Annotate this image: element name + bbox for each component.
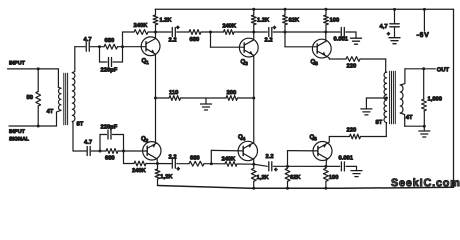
svg-text:-6V: -6V: [417, 32, 430, 39]
svg-text:4.7: 4.7: [84, 140, 92, 146]
svg-text:4T: 4T: [406, 115, 413, 121]
svg-text:220: 220: [347, 64, 357, 70]
svg-text:680: 680: [105, 38, 115, 44]
svg-text:100: 100: [329, 175, 339, 181]
svg-text:240K: 240K: [222, 23, 237, 29]
svg-text:4: 4: [243, 136, 246, 142]
svg-text:2.2: 2.2: [265, 38, 273, 44]
svg-text:110: 110: [169, 90, 178, 96]
svg-text:6: 6: [314, 136, 317, 142]
svg-text:INPUT: INPUT: [9, 60, 26, 66]
svg-text:240K: 240K: [134, 23, 149, 29]
svg-text:4T: 4T: [46, 109, 53, 115]
svg-text:5: 5: [315, 61, 318, 67]
svg-text:50: 50: [26, 95, 32, 101]
svg-text:200: 200: [227, 90, 237, 96]
svg-text:0.001: 0.001: [334, 37, 349, 43]
svg-text:8T: 8T: [76, 121, 83, 127]
svg-text:220: 220: [346, 128, 356, 134]
svg-text:1.2K: 1.2K: [257, 18, 270, 24]
svg-text:4,7: 4,7: [380, 24, 388, 30]
svg-text:4.7: 4.7: [84, 37, 92, 43]
svg-text:+: +: [273, 25, 276, 31]
svg-text:220pF: 220pF: [101, 67, 118, 73]
svg-text:1,2K: 1,2K: [256, 175, 269, 181]
svg-text:680: 680: [190, 37, 200, 43]
svg-text:SIGNAL: SIGNAL: [9, 136, 30, 142]
svg-text:1: 1: [146, 60, 149, 66]
svg-text:1,000: 1,000: [427, 97, 442, 103]
svg-text:+: +: [274, 167, 277, 173]
svg-text:240K: 240K: [132, 168, 147, 174]
svg-text:220pF: 220pF: [100, 124, 117, 130]
svg-text:2.2: 2.2: [168, 154, 176, 160]
svg-text:62K: 62K: [290, 175, 301, 181]
svg-text:1.2K: 1.2K: [159, 18, 172, 24]
svg-text:+: +: [177, 166, 180, 172]
svg-text:2: 2: [146, 138, 149, 144]
svg-text:62K: 62K: [289, 18, 300, 24]
svg-text:8T: 8T: [375, 120, 382, 126]
svg-text:240K: 240K: [221, 156, 236, 162]
svg-text:INPUT: INPUT: [9, 129, 26, 135]
svg-text:SeekIC.com: SeekIC.com: [391, 177, 460, 189]
svg-text:3: 3: [245, 61, 248, 67]
svg-text:+: +: [176, 25, 179, 31]
svg-text:+: +: [387, 32, 390, 38]
svg-text:680: 680: [190, 155, 200, 161]
svg-text:680: 680: [105, 155, 115, 161]
svg-text:1,2K: 1,2K: [160, 174, 173, 180]
svg-text:0.001: 0.001: [338, 156, 353, 162]
svg-text:100: 100: [330, 18, 340, 24]
svg-text:OUT: OUT: [437, 67, 450, 73]
svg-text:2.2: 2.2: [265, 154, 273, 160]
svg-text:2.2: 2.2: [169, 37, 177, 43]
